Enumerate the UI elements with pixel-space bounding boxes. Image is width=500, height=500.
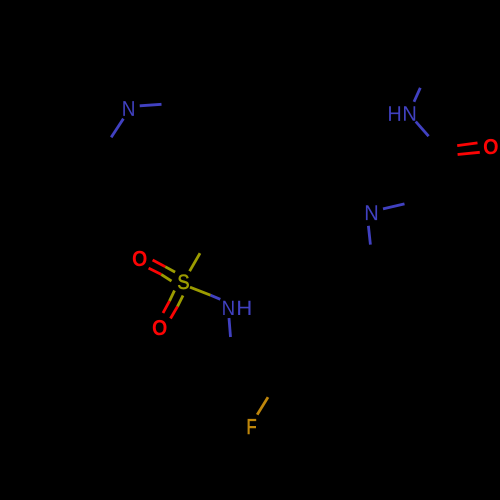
wire C=O double bond lower red half: [458, 152, 480, 154]
fluorine F: [248, 419, 256, 434]
amide H of HN (top-right): [389, 106, 400, 121]
wire S to N bond N-half blue: [211, 295, 221, 299]
wire S=O upper line O-half red: [153, 260, 166, 267]
carbonyl O: [484, 139, 498, 154]
wire S to aryl C up-right half-bond: [190, 253, 200, 271]
amine N (piperidine N, top-left): [123, 101, 134, 116]
wire S=O right line O-half red: [171, 307, 178, 319]
wire C=O double bond upper red half: [457, 143, 477, 146]
wire N to C up-right half-bond: [383, 204, 405, 209]
sulfonamide H of NH: [238, 301, 250, 315]
wire S to N bond S-half olive: [190, 287, 211, 295]
sulfonyl S: [178, 275, 189, 290]
wire HN to carbonyl C down half-bond: [416, 122, 429, 137]
amide N of HN: [404, 106, 415, 121]
wire N to C right half-bond: [140, 104, 162, 106]
pyrrolidine N (middle-right): [366, 205, 377, 220]
wire S=O left line O-half red: [163, 301, 170, 313]
wire S=O left line S-half olive: [170, 291, 175, 302]
wire S=O lower line O-half red: [149, 268, 162, 274]
wire HN to methyl up half-bond: [414, 88, 420, 102]
wire N to C down-left half-bond: [111, 119, 123, 138]
sulfonyl O upper-left: [133, 251, 147, 266]
sulfonamide N of NH: [223, 301, 233, 315]
wire S=O lower line S-half olive: [161, 274, 171, 281]
wire NH to C down half-bond: [229, 318, 231, 337]
wire N to C down half-bond: [368, 226, 370, 245]
wire F to aryl C up-right half-bond: [257, 397, 268, 415]
wire S=O upper line S-half olive: [165, 267, 175, 272]
wire S=O right line S-half olive: [178, 296, 184, 307]
sulfonyl O lower: [153, 320, 167, 335]
